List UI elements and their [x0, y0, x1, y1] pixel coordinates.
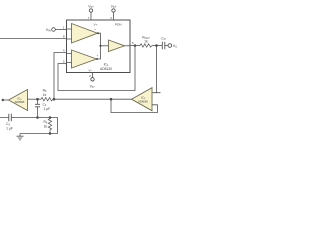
- op-amp U2 (lower left, pointing left): [9, 90, 28, 111]
- capacitor C4 vertical branch: [35, 99, 40, 117]
- wire pin 4 to servo node: [54, 53, 67, 100]
- wire U3 output to junction: [111, 98, 132, 100]
- wire servo run U2 to R5: [28, 98, 42, 100]
- wire A1 input stubs: [67, 29, 72, 39]
- wire pin 3 stub: [113, 12, 115, 20]
- svg-text:VO: VO: [173, 44, 177, 49]
- svg-text:VS+: VS+: [88, 4, 94, 8]
- svg-text:V+: V+: [94, 23, 98, 27]
- terminal V- (pin 2): [91, 78, 94, 81]
- wire pin 7 stub: [90, 12, 92, 20]
- terminal V+ left (pin 7): [89, 9, 92, 12]
- resistor R7: [140, 44, 152, 47]
- svg-text:1k: 1k: [144, 40, 148, 44]
- node A1 apex: [97, 32, 99, 34]
- wire pin 5 feedback to output node: [58, 46, 135, 91]
- terminal V+ right (pin 3 PDN): [112, 9, 115, 12]
- wire U2 apex lead: [3, 99, 9, 101]
- resistor R5: [41, 98, 53, 101]
- wire R7 to C5: [152, 45, 162, 47]
- amplifier stage A1 inside U1: [72, 24, 98, 44]
- buffer stage A3 inside U1: [109, 40, 125, 52]
- wire Vo node down to U3 input: [152, 46, 161, 94]
- svg-text:CO: CO: [161, 37, 165, 42]
- wire A2 input stubs: [67, 54, 72, 63]
- svg-text:1k: 1k: [43, 93, 47, 97]
- svg-text:VS+: VS+: [111, 4, 117, 8]
- wire pin 8 to left edge: [0, 38, 67, 40]
- wire pin 2 stub: [92, 73, 94, 78]
- resistor R6: [48, 118, 51, 134]
- node servo junction pin4: [53, 98, 56, 101]
- node C4 tap: [36, 98, 39, 101]
- svg-text:VS−: VS−: [90, 85, 96, 89]
- node A2 apex: [96, 58, 98, 60]
- op-amp U3 (lower right, pointing left): [132, 88, 153, 111]
- terminal VO: [168, 44, 172, 48]
- wire output pin to R7: [130, 45, 140, 47]
- ground: [17, 134, 24, 140]
- svg-text:1k: 1k: [44, 124, 48, 128]
- node Vo junction: [155, 44, 158, 47]
- wire A3 apex to output pin 6: [125, 45, 131, 47]
- node output junction: [134, 44, 137, 47]
- node summing junction: [99, 45, 101, 47]
- svg-text:AD8065: AD8065: [138, 99, 148, 103]
- op-amp U1 (AD8130) outline box: [67, 20, 131, 73]
- svg-text:1 µF: 1 µF: [44, 107, 51, 111]
- node U2 apex terminal: [2, 99, 4, 101]
- node C4 bottom: [36, 116, 39, 119]
- svg-text:PDN: PDN: [115, 23, 122, 27]
- wire A2 apex to summing node: [97, 46, 101, 59]
- amplifier stage A2 inside U1: [72, 50, 97, 68]
- node U3 output junction: [110, 98, 113, 101]
- wire integrator bottom rail: [0, 118, 58, 134]
- node R6 bottom: [49, 132, 52, 135]
- svg-text:AD8130: AD8130: [100, 67, 112, 71]
- wire R5 to U3 output run: [53, 98, 111, 100]
- svg-text:AD8065: AD8065: [15, 100, 25, 104]
- wire VIN to pin 1: [55, 29, 66, 31]
- wire summing node to A3 base: [101, 45, 109, 47]
- capacitor C5: [162, 42, 165, 49]
- node R6 top: [49, 116, 52, 119]
- wire U3 feedback loop: [111, 99, 158, 112]
- svg-text:V−: V−: [89, 68, 93, 72]
- wire A1 apex to summing node: [98, 33, 101, 46]
- wire C5 to VO terminal: [165, 45, 168, 47]
- terminal VIN: [52, 28, 56, 32]
- svg-text:VIN: VIN: [46, 28, 51, 33]
- svg-text:1 µF: 1 µF: [6, 126, 13, 130]
- capacitor C3: [9, 114, 12, 121]
